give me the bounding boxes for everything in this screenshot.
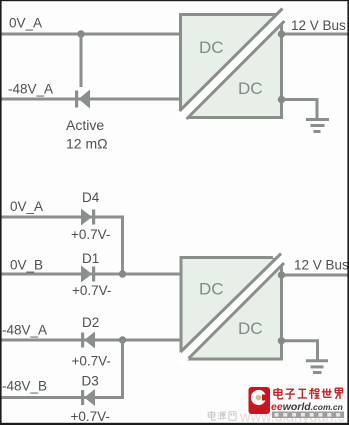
- svg-text:DC: DC: [199, 38, 224, 57]
- svg-text:12 V Bus: 12 V Bus: [294, 258, 349, 273]
- svg-text:D2: D2: [82, 315, 99, 330]
- svg-text:DC: DC: [199, 280, 224, 299]
- junction dot 0V bus: [119, 270, 126, 277]
- watermark dianyuan text: [208, 411, 236, 420]
- svg-text:0V_B: 0V_B: [10, 258, 43, 273]
- wire ground return (top converter): [282, 100, 318, 120]
- svg-text:D4: D4: [82, 190, 100, 205]
- ground (top): [306, 120, 329, 132]
- svg-text:-48V_A: -48V_A: [2, 323, 47, 338]
- wire -48V_A top rail: [1, 98, 181, 101]
- wire 12 V Bus output (bottom): [282, 274, 349, 277]
- svg-text:0V_A: 0V_A: [10, 199, 43, 214]
- svg-text:DC: DC: [238, 319, 263, 338]
- border frame: [0, 0, 349, 1]
- junction dot on 0V_A rail: [77, 30, 84, 37]
- diode D4 (anode-left): [81, 209, 95, 226]
- svg-text:12 mΩ: 12 mΩ: [66, 136, 108, 152]
- svg-text:0V_A: 0V_A: [9, 16, 42, 31]
- svg-text:12 V Bus: 12 V Bus: [291, 18, 346, 33]
- wire 0V_A top rail: [1, 33, 181, 36]
- diode D1 (anode-left): [81, 266, 95, 283]
- svg-text:-48V_A: -48V_A: [8, 82, 53, 97]
- svg-text:-48V_B: -48V_B: [2, 379, 47, 394]
- wire 0V_B row to converter: [1, 273, 182, 276]
- ground (bottom): [306, 361, 328, 373]
- junction dot output (bottom converter): [278, 271, 285, 278]
- logo slogan bar: [272, 412, 344, 419]
- svg-text:+0.7V-: +0.7V-: [71, 227, 110, 242]
- diode D3 (cathode-left): [81, 389, 95, 406]
- svg-text:+0.7V-: +0.7V-: [72, 354, 111, 369]
- svg-text:eeworld.com.cn: eeworld.com.cn: [271, 401, 343, 413]
- wire -48V_A row to converter: [1, 339, 182, 342]
- diode Active ORing (cathode-left): [75, 90, 90, 109]
- logo eeworld: [249, 387, 271, 414]
- svg-text:+0.7V-: +0.7V-: [71, 409, 110, 424]
- svg-text:D3: D3: [82, 374, 99, 389]
- svg-text:+0.7V-: +0.7V-: [72, 283, 111, 298]
- diode D2 (cathode-left): [81, 332, 95, 349]
- svg-text:Active: Active: [66, 117, 104, 133]
- wire vertical from 0V_A junction to diode: [80, 34, 83, 87]
- junction dot -48V bus: [119, 336, 126, 343]
- junction dot ground (top converter): [278, 96, 285, 103]
- op-amp: DC/DC converter U1 (top): [179, 9, 285, 120]
- wire 0V_A row to corner: [1, 217, 123, 274]
- wire 12 V Bus output (top): [282, 33, 349, 36]
- svg-text:DC: DC: [238, 79, 263, 98]
- junction dot output (top converter): [278, 30, 285, 37]
- wire -48V_B row to corner: [1, 340, 123, 398]
- op-amp: DC/DC converter U2 (bottom): [179, 254, 285, 362]
- logo text eeworld chinese: [274, 388, 343, 399]
- svg-text:D1: D1: [82, 251, 99, 266]
- wire ground return (bottom converter): [282, 341, 318, 360]
- junction dot ground (bottom converter): [278, 337, 285, 344]
